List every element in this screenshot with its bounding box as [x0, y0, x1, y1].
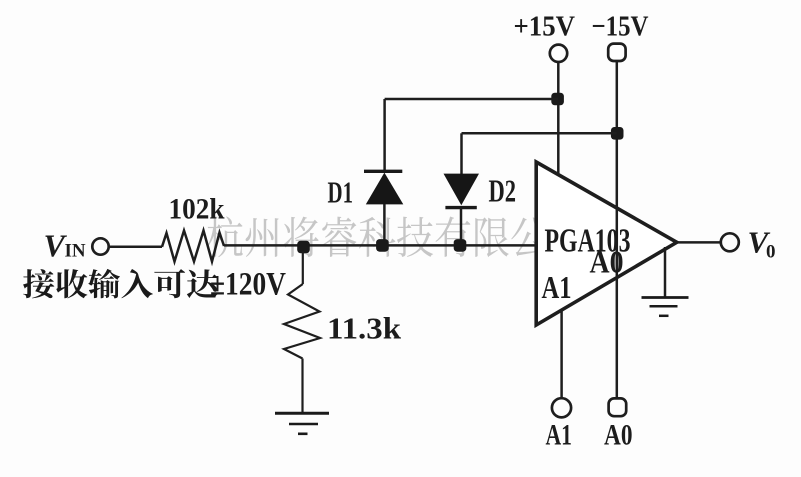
note text 接收输入可达±120V — [23, 269, 218, 298]
diode D2 (to -15V rail) — [444, 133, 480, 245]
wire from D1 cathode to +15V line — [385, 98, 559, 101]
svg-text:D2: D2 — [489, 173, 517, 209]
resistor R2 11.3k vertical zigzag — [284, 251, 320, 413]
svg-text:11.3k: 11.3k — [327, 311, 402, 346]
terminal VIN input — [92, 238, 108, 254]
wire op-amp A1 pin down — [560, 311, 563, 399]
terminal -15V — [608, 44, 625, 61]
label A0 (bottom) — [604, 419, 633, 452]
resistor R1 102k zigzag — [162, 231, 224, 262]
label 11.3k — [327, 311, 402, 346]
wire from D2 anode to -15V line — [462, 132, 617, 135]
junction node main wire / D2 — [454, 239, 467, 252]
terminal V0 output — [721, 233, 739, 251]
svg-text:±120V: ±120V — [210, 267, 286, 303]
op-amp pin label A0 — [590, 244, 624, 280]
terminal +15V — [550, 45, 567, 62]
svg-text:102k: 102k — [169, 193, 225, 226]
svg-text:A0: A0 — [604, 419, 633, 452]
diode D1 (to +15V rail) — [364, 99, 403, 245]
svg-text:A1: A1 — [546, 419, 573, 452]
svg-text:+15V: +15V — [514, 11, 576, 43]
op-amp pin label A1 — [542, 269, 572, 305]
svg-text:A0: A0 — [590, 244, 624, 280]
wire +15V vertical to op-amp V+ pin — [557, 62, 560, 176]
label A1 (bottom) — [546, 419, 573, 452]
junction node main wire / R2 — [297, 241, 310, 254]
power label -15V — [592, 11, 649, 43]
watermark text 杭州将睿科技有限公司 — [207, 216, 583, 257]
terminal A1 — [552, 398, 571, 417]
svg-text:−15V: −15V — [592, 11, 649, 43]
label VIN — [44, 228, 86, 264]
ground at op-amp reference — [642, 247, 689, 316]
wire VIN to resistor R1 — [109, 246, 162, 249]
label D1 — [328, 175, 354, 210]
power label +15V — [514, 11, 576, 43]
junction node on -15V line — [611, 127, 624, 140]
wire resistor R1 to op-amp input — [224, 244, 536, 247]
wire -15V vertical down through op-amp to A0 terminal — [616, 61, 619, 398]
label 102k — [169, 193, 225, 226]
wire op-amp output to V0 — [677, 241, 721, 244]
op-amp label PGA103 — [545, 223, 631, 260]
label D2 — [489, 173, 517, 209]
ground below R2 — [275, 413, 329, 434]
svg-text:IN: IN — [65, 241, 86, 262]
svg-text:D1: D1 — [328, 175, 354, 210]
svg-text:A1: A1 — [542, 269, 572, 305]
svg-text:0: 0 — [766, 242, 776, 263]
label V0 — [748, 225, 776, 263]
op-amp U1 PGA103 body — [536, 162, 677, 325]
junction node on +15V line — [551, 93, 564, 106]
terminal A0 — [609, 398, 627, 416]
junction node main wire / D1 — [376, 239, 389, 252]
